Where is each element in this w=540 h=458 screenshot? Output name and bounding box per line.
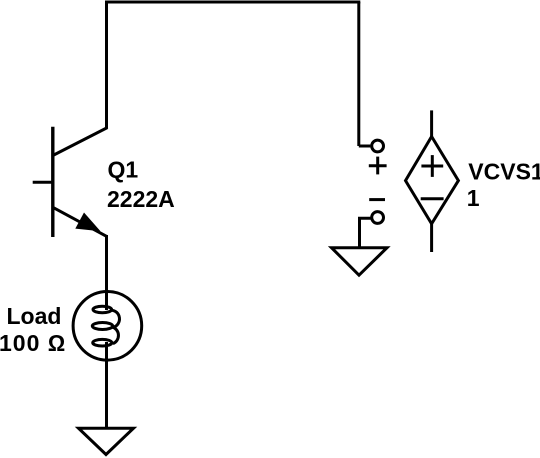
- wire: top rail: [105, 1, 360, 4]
- plus polarity mark: [369, 157, 387, 175]
- svg-text:Q1: Q1: [108, 157, 139, 183]
- svg-text:Load: Load: [7, 303, 62, 329]
- svg-text:VCVS1: VCVS1: [468, 159, 540, 185]
- svg-text:2222A: 2222A: [107, 186, 175, 212]
- wire: right drop from top rail: [357, 2, 360, 146]
- terminal + node: [372, 140, 384, 152]
- load LOAD1 100 ohm: [73, 292, 142, 361]
- wire: load to ground: [105, 342, 108, 429]
- svg-text:100 Ω: 100 Ω: [0, 330, 66, 356]
- wire: - terminal to ground: [360, 218, 371, 249]
- minus polarity mark: [369, 198, 385, 201]
- transistor Q1: [33, 127, 108, 237]
- wire: Q1 emitter to load: [105, 235, 108, 310]
- svg-text:1: 1: [467, 185, 480, 211]
- wire: jog to + terminal: [359, 145, 371, 148]
- ground (below load): [79, 428, 134, 454]
- ground (right, below - terminal): [332, 248, 388, 276]
- VCVS1 dependent source: [406, 110, 459, 252]
- wire: Q1 collector riser to top rail: [105, 2, 108, 128]
- terminal - node: [372, 212, 384, 224]
